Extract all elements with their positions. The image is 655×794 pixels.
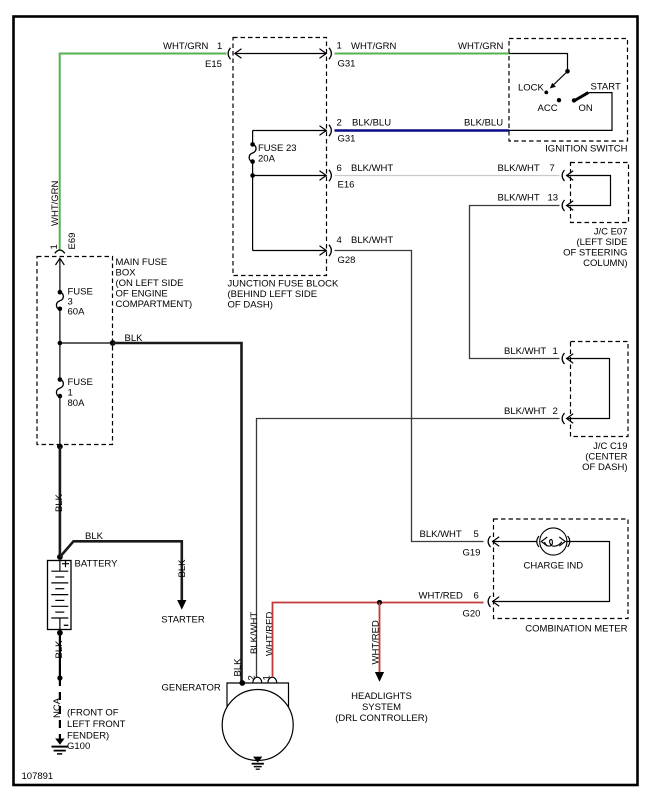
charge ind bulb: [524, 528, 584, 572]
svg-text:WHT/GRN: WHT/GRN: [458, 41, 504, 52]
svg-text:WHT/GRN: WHT/GRN: [351, 41, 397, 52]
svg-text:BLK/WHT: BLK/WHT: [351, 235, 393, 246]
svg-text:WHT/RED: WHT/RED: [419, 591, 463, 602]
svg-text:BATTERY: BATTERY: [75, 559, 119, 570]
svg-text:BLK: BLK: [54, 493, 65, 512]
internal wire to pin 6: [253, 163, 394, 191]
internal wire to pin 4: [253, 235, 394, 266]
svg-text:WHT/GRN: WHT/GRN: [50, 180, 61, 226]
svg-text:LEFT FRONT: LEFT FRONT: [67, 719, 126, 730]
svg-text:1: 1: [553, 346, 558, 357]
svg-text:JUNCTION FUSE BLOCK: JUNCTION FUSE BLOCK: [228, 279, 340, 290]
ignition switch (dashed box): [509, 39, 628, 155]
svg-text:G31: G31: [338, 59, 356, 70]
svg-text:4: 4: [337, 235, 342, 246]
svg-text:ACC: ACC: [538, 103, 558, 114]
svg-text:OF DASH): OF DASH): [582, 462, 627, 473]
internal wire to pin 2: [253, 118, 356, 145]
svg-text:G19: G19: [463, 548, 481, 559]
svg-text:OF STEERING: OF STEERING: [563, 248, 627, 259]
node battery positive: [57, 554, 63, 560]
svg-text:6: 6: [337, 163, 342, 174]
svg-text:COMBINATION METER: COMBINATION METER: [525, 624, 627, 635]
node battery negative: [57, 630, 63, 636]
J/C C19 internal wire pin1 to pin2: [567, 359, 610, 419]
svg-text:G28: G28: [338, 255, 356, 266]
svg-text:J/C C19: J/C C19: [593, 441, 627, 452]
ground G100: [52, 739, 91, 754]
svg-text:80A: 80A: [68, 398, 86, 409]
wire BLK/BLU to ignition switch: [335, 118, 510, 131]
svg-text:BLK/WHT: BLK/WHT: [504, 406, 546, 417]
svg-text:E69: E69: [67, 233, 78, 250]
wire WHT/RED to headlights system: [335, 603, 428, 725]
svg-text:1: 1: [262, 675, 273, 680]
node junction in fuse box: [58, 341, 63, 346]
svg-text:LOCK: LOCK: [518, 83, 545, 94]
svg-text:G31: G31: [338, 134, 356, 145]
connector E15 (left edge of junction block): [228, 48, 241, 59]
generator ground: [252, 757, 264, 770]
junction block internal vertical wire lower: [252, 162, 254, 251]
svg-text:(DRL CONTROLLER): (DRL CONTROLLER): [335, 713, 428, 724]
svg-text:START: START: [591, 82, 621, 93]
connector G19 pin 5: [420, 529, 500, 559]
svg-text:(CENTER: (CENTER: [585, 452, 627, 463]
svg-text:BLK/WHT: BLK/WHT: [498, 193, 540, 204]
connector E07 pin 7: [562, 170, 573, 181]
svg-text:(BEHIND LEFT SIDE: (BEHIND LEFT SIDE: [228, 289, 318, 300]
svg-text:BLK: BLK: [177, 559, 188, 578]
ignition switch internals: [509, 54, 621, 131]
fender note: [67, 708, 126, 742]
node WHT/RED branch: [377, 600, 382, 605]
svg-text:WHT/RED: WHT/RED: [265, 612, 276, 656]
wire NCA (dashed) to G100: [52, 678, 63, 739]
svg-text:BLK/WHT: BLK/WHT: [420, 529, 462, 540]
node BLK at generator: [239, 680, 245, 686]
svg-text:WHT/RED: WHT/RED: [371, 620, 382, 664]
svg-text:2: 2: [247, 675, 258, 680]
svg-text:G100: G100: [67, 741, 90, 752]
svg-text:BLK/WHT: BLK/WHT: [504, 346, 546, 357]
wire BLK/WHT C19 pin2 to generator terminal 2: [257, 419, 560, 678]
junction block internal vertical wire: [252, 131, 254, 145]
connector C19 pin 2: [504, 406, 573, 424]
svg-text:COLUMN): COLUMN): [583, 258, 627, 269]
svg-text:6: 6: [474, 591, 479, 602]
svg-text:1: 1: [49, 244, 60, 249]
svg-text:IGNITION SWITCH: IGNITION SWITCH: [545, 144, 627, 155]
wire BLK battery to starter: [60, 531, 205, 626]
svg-text:BLK/BLU: BLK/BLU: [352, 118, 391, 129]
J/C C19 (dashed box): [571, 342, 629, 474]
generator: [162, 675, 294, 760]
svg-text:CHARGE IND: CHARGE IND: [524, 561, 584, 572]
svg-text:BOX: BOX: [116, 268, 137, 279]
svg-text:(FRONT OF: (FRONT OF: [67, 708, 119, 719]
svg-text:5: 5: [474, 529, 479, 540]
svg-text:(LEFT SIDE: (LEFT SIDE: [576, 237, 627, 248]
J/C E07 internal wire pin7 to pin13: [567, 176, 611, 206]
wire BLK fuse box bottom to battery: [54, 447, 65, 558]
svg-text:E15: E15: [205, 59, 222, 70]
wire meter internal pin5 to bulb: [493, 541, 537, 543]
svg-text:MAIN FUSE: MAIN FUSE: [116, 257, 168, 268]
main fuse box (dashed box): [37, 257, 192, 445]
J/C E07 (dashed box): [563, 163, 628, 270]
node on internal vertical: [250, 173, 255, 178]
combination meter (dashed box): [494, 519, 629, 635]
wire fuse3 to junction: [59, 309, 61, 343]
wire WHT/RED generator to combination meter G20: [273, 591, 484, 678]
svg-text:1: 1: [68, 388, 73, 399]
svg-text:FENDER): FENDER): [67, 731, 109, 742]
wire BLK/WHT E16 to J/C E07 pin 7 (silver): [335, 163, 560, 176]
node at fuse box bottom: [57, 444, 63, 450]
svg-text:BLK/BLU: BLK/BLU: [464, 118, 503, 129]
svg-text:1: 1: [337, 41, 342, 52]
wire BLK/WHT G28 to combination meter G19: [335, 251, 484, 542]
svg-text:ON: ON: [579, 103, 593, 114]
svg-text:HEADLIGHTS: HEADLIGHTS: [351, 691, 412, 702]
svg-text:G20: G20: [463, 609, 481, 620]
connector E07 pin 13: [498, 193, 574, 212]
svg-text:OF ENGINE: OF ENGINE: [116, 289, 168, 300]
svg-text:BLK: BLK: [232, 658, 243, 677]
junction fuse block (dashed box): [228, 38, 340, 311]
battery: [48, 559, 119, 630]
svg-text:107891: 107891: [22, 771, 54, 782]
svg-text:1: 1: [217, 41, 222, 52]
svg-text:7: 7: [550, 163, 555, 174]
svg-text:BLK: BLK: [85, 531, 104, 542]
fuse 3 60A: [56, 287, 92, 318]
svg-text:FUSE: FUSE: [68, 377, 93, 388]
svg-text:STARTER: STARTER: [161, 615, 205, 626]
connector C19 pin 1: [562, 353, 573, 364]
svg-text:J/C E07: J/C E07: [594, 227, 628, 238]
svg-text:BLK/WHT: BLK/WHT: [249, 612, 260, 654]
svg-text:60A: 60A: [68, 307, 86, 318]
connector E69 (top of main fuse box): [49, 233, 78, 265]
wire meter internal bulb to pin 6: [493, 542, 610, 602]
svg-text:COMPARTMENT): COMPARTMENT): [116, 299, 193, 310]
rotated wire labels at generator: [232, 612, 275, 677]
svg-text:WHT/GRN: WHT/GRN: [163, 41, 209, 52]
wire fuse1 to box bottom: [59, 396, 61, 446]
svg-text:SYSTEM: SYSTEM: [362, 702, 401, 713]
wire BLK/WHT E07 pin13 to J/C C19 pin1: [470, 206, 560, 359]
wire fuse box to fuse 1: [59, 343, 61, 380]
svg-text:E16: E16: [338, 180, 355, 191]
svg-text:2: 2: [553, 406, 558, 417]
wire inside fuse box to fuse 3: [59, 260, 61, 293]
svg-text:GENERATOR: GENERATOR: [162, 683, 221, 694]
connector G31 pin 1 (right edge): [329, 41, 355, 70]
svg-text:BLK/WHT: BLK/WHT: [351, 163, 393, 174]
wire WHT/GRN to ignition switch: [335, 41, 510, 54]
wire junction to box edge: [60, 342, 113, 344]
svg-text:2: 2: [337, 118, 342, 129]
svg-text:BLK: BLK: [125, 333, 144, 344]
wire BLK fuse box to generator junction: [113, 333, 242, 683]
wire BLK battery negative down: [54, 633, 65, 678]
svg-text:BLK: BLK: [54, 640, 65, 659]
svg-text:NCA: NCA: [52, 697, 63, 718]
fuse 23 20A: [249, 142, 296, 164]
svg-text:20A: 20A: [258, 154, 276, 165]
svg-text:13: 13: [548, 193, 559, 204]
connector G20 pin 6: [463, 591, 500, 620]
svg-text:BLK/WHT: BLK/WHT: [498, 163, 540, 174]
svg-text:FUSE 23: FUSE 23: [258, 143, 297, 154]
svg-text:OF DASH): OF DASH): [228, 300, 273, 311]
fuse 1 80A: [56, 377, 92, 409]
node at fuse box edge: [110, 340, 116, 346]
wire through junction block top: [235, 49, 326, 59]
node below battery: [57, 675, 62, 680]
svg-text:(ON LEFT SIDE: (ON LEFT SIDE: [116, 278, 184, 289]
wire WHT/GRN from E15 to main fuse box: [50, 41, 227, 250]
